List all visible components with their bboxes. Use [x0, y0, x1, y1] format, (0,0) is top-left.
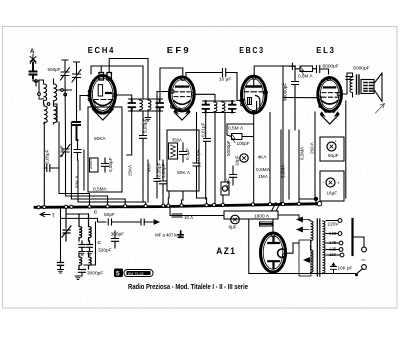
EL3 pin bottom [325, 110, 328, 113]
resistor body dark [259, 222, 273, 227]
wire EF9 plate to coupling [195, 94, 215, 101]
output transformer primary [350, 73, 353, 97]
wire EL3 plate up to output cap [341, 73, 353, 94]
wire x289 [288, 130, 290, 199]
EL3 pin right [337, 92, 341, 96]
voltage selector bar [351, 219, 353, 255]
capacitor 0,05uF left of EF9 box [154, 160, 160, 198]
badge pill EM 73-02 [124, 270, 153, 277]
wire x84 osc [83, 150, 85, 190]
ECH4 grid dashes [94, 99, 113, 101]
EBC3 pin top [252, 75, 256, 79]
wire IF2 right down [223, 113, 225, 205]
tap 125 [326, 249, 339, 251]
padding capacitor dark [73, 122, 80, 140]
bus junction circles [37, 202, 322, 209]
bus slashes [272, 203, 281, 211]
badge logo [114, 269, 123, 278]
osc right vertical [84, 222, 96, 265]
EBC3 pin left upper [240, 99, 244, 103]
wire IF2 down x214 [214, 113, 216, 206]
electrolytic 10uF [240, 154, 248, 162]
ECH4 cathode arc [94, 101, 112, 106]
capacitor 0,05uF left [44, 165, 59, 207]
ground T arrow [40, 213, 50, 217]
pilot lamp box [299, 240, 311, 276]
EL3 anode plate [324, 86, 335, 88]
electrolytic 50uF [327, 142, 336, 151]
node on trimmer line [64, 93, 67, 96]
wires under EF9 box to bus [168, 150, 206, 205]
EBC3 pin bottom [252, 111, 255, 114]
wire 25K down [127, 111, 132, 155]
power transformer core [317, 219, 320, 276]
antenna capacitor 500pF [30, 63, 37, 78]
ECH4 top pad right [107, 73, 111, 81]
mains contact bottom [362, 265, 367, 270]
wire AZ1 top to resistor [272, 219, 274, 232]
capacitor 0,01uF [204, 113, 211, 151]
resistor box 100pF net [232, 134, 243, 140]
heater line [170, 209, 224, 216]
EBC3 pin left lower [241, 103, 244, 106]
EF9 pin top [181, 77, 185, 81]
wire osc top [66, 214, 106, 222]
speaker coil dashes [364, 83, 373, 92]
EL3 grid dashes [322, 92, 338, 94]
ECH4 pin right [113, 93, 117, 97]
power transformer primary winding [323, 221, 326, 273]
EF9 heater V [175, 113, 190, 121]
wire x281 label 0,3M [280, 130, 282, 205]
EBC3 anode plate [247, 85, 261, 87]
ECH4 pins bottom [95, 110, 98, 113]
rectifier AZ1 envelope [261, 233, 286, 272]
pentode EF9 envelope [169, 77, 194, 111]
tap 145 [326, 242, 339, 244]
transformer rectifier winding [311, 245, 314, 274]
mains switch [312, 269, 363, 275]
triode-hexode ECH4 envelope [90, 76, 116, 114]
resistor 0,5M top right [300, 66, 313, 72]
antenna coil secondary upper [54, 79, 57, 104]
wire x270 [269, 113, 271, 206]
AZ1 anode top [268, 238, 279, 244]
transformer heater winding top [309, 220, 313, 244]
wire coil to grid [54, 90, 72, 122]
AZ1 pin top [271, 233, 275, 237]
grid resistor box 50K under ECH4 [88, 107, 122, 192]
cathode resistor box EF9 [167, 130, 199, 191]
speaker cone [374, 73, 382, 102]
capacitor 0,1uF EF9 cathode [180, 143, 187, 162]
trimmer cap mid [61, 145, 70, 157]
antenna coil primary upper [39, 80, 47, 104]
resistor 350 ohm [169, 143, 178, 159]
capacitor 5000pF output [346, 77, 353, 80]
mid caps to ground [79, 241, 85, 251]
ECH4 anode bar [106, 92, 111, 94]
ground bus [35, 204, 320, 208]
wire ECH4 plate to IF1 [117, 95, 132, 99]
capacitor 0,03uF [140, 111, 147, 145]
osc network left vertical [61, 209, 98, 263]
wire x78 [78, 160, 146, 205]
osc trimmer 1 [62, 209, 71, 242]
EF9 grid dashes [174, 91, 190, 93]
capacitor 5000pF coupling to EL3 [317, 66, 329, 75]
IF2 right capacitor [229, 101, 236, 113]
EF9 cathode arc [174, 101, 190, 105]
antenna coil secondary lower [54, 104, 57, 124]
capacitor 0,1uF mid [74, 140, 81, 160]
wire grid EL3 from pot [283, 97, 318, 99]
wire EF9 top cap [160, 68, 183, 99]
tap 220V [326, 220, 338, 222]
wire EF9 left [157, 92, 171, 161]
coupling capacitor 10uF [216, 69, 240, 101]
EF9 pin left lower [171, 105, 174, 108]
wire x71 [71, 122, 125, 205]
output pentode EL3 envelope [318, 78, 342, 112]
wire ECH4 top to IF1 [109, 59, 148, 100]
IF transformer 1 windings [129, 99, 163, 111]
EF9 pin right [192, 92, 196, 96]
coil terminal circles [47, 103, 50, 106]
electrolytic 16uF [320, 171, 344, 201]
HT wire from box right [278, 215, 299, 220]
IF2 left capacitor [203, 101, 210, 113]
wire EL3 cathode x315 [314, 112, 316, 198]
capacitor 0,1uF under IF2 [193, 113, 200, 199]
IF1 right capacitor [157, 99, 164, 111]
ECH4 pins left [88, 90, 91, 93]
line capacitor 10KpF [331, 263, 337, 274]
speaker field coil box [361, 80, 374, 94]
osc coil 2 [89, 214, 92, 241]
node plus [290, 63, 296, 70]
AZ1 pin right [278, 249, 286, 257]
electrolytic small box [221, 182, 229, 195]
wire x59 [59, 122, 90, 205]
EBC3 cathode J [256, 96, 260, 112]
tuning trimmer cap 1 [61, 60, 70, 80]
capacitor 0,05uF in box [102, 158, 109, 172]
EF9 anode plate [176, 85, 188, 87]
small resistor on heater line [172, 214, 182, 217]
wire EBC3 cathode down [227, 114, 254, 205]
arrow right [152, 220, 159, 224]
EL3 heater V below [321, 115, 338, 124]
series cap 50pF to AZ1 line [116, 219, 152, 225]
pencil mark [376, 104, 385, 114]
node G2 [38, 93, 41, 96]
resistor 200 ohm box [90, 158, 99, 172]
EBC3 grid dashes [245, 91, 264, 93]
tap 160 [326, 233, 338, 235]
node G1 [35, 80, 38, 83]
EL3 cathode arc [322, 101, 339, 105]
EBC3 pin right [264, 91, 268, 95]
osc lower coil 2 [89, 253, 92, 269]
osc coil 1 [79, 214, 82, 241]
series cap 50pF [108, 219, 116, 225]
capacitor 0,05uF mid [160, 111, 167, 205]
ground symbol osc [75, 276, 81, 280]
capacitor 400pF [230, 166, 237, 185]
output transformer core [357, 75, 360, 94]
wire AZ1 bottom feed [249, 219, 312, 274]
wire EL3 right down [345, 101, 347, 198]
antenna coil primary lower [44, 104, 47, 124]
ECH4 heater V [93, 110, 113, 120]
duo-diode-triode EBC3 envelope [242, 76, 266, 113]
mains contact top [362, 247, 367, 252]
cap 3000pF [79, 270, 86, 273]
ECH4 grid box [98, 85, 102, 96]
osc lower coil 1 [79, 253, 82, 269]
filter resistor box 1800 ohm [224, 211, 278, 219]
wire EF9 top over to 10uF [186, 73, 216, 77]
tap 110 [326, 254, 340, 256]
cap to ground left [58, 263, 64, 270]
small cap on heater line [179, 231, 184, 237]
junction dot [314, 197, 318, 201]
electrolytic 8uF [231, 215, 240, 224]
ECH4 top pad left [99, 73, 104, 81]
tuning trimmer cap 2 [72, 62, 81, 82]
wire antenna down [33, 78, 39, 93]
heater arrows to tubes [297, 217, 309, 222]
EBC3 diode box [248, 98, 252, 105]
wire long vertical x283 [282, 66, 284, 205]
EL3 pin left [318, 96, 321, 99]
IF1 left capacitor [129, 99, 136, 111]
wire left column [39, 96, 44, 100]
EF9 pin left upper [171, 90, 174, 93]
AZ1 anode bottom [268, 261, 279, 268]
wire AZ1 right heater [286, 243, 299, 253]
wire EBC3 top cap [254, 66, 283, 75]
capacitor 50000pF on x295 [292, 66, 299, 130]
wire x44 down to bus [43, 122, 45, 165]
EL3 pin top [327, 77, 331, 81]
EL3 cathode box 50uF [320, 137, 344, 161]
EF9 pins bottom [178, 109, 181, 112]
ground under IF1 [145, 111, 151, 121]
IF transformer 2 windings [203, 101, 236, 113]
